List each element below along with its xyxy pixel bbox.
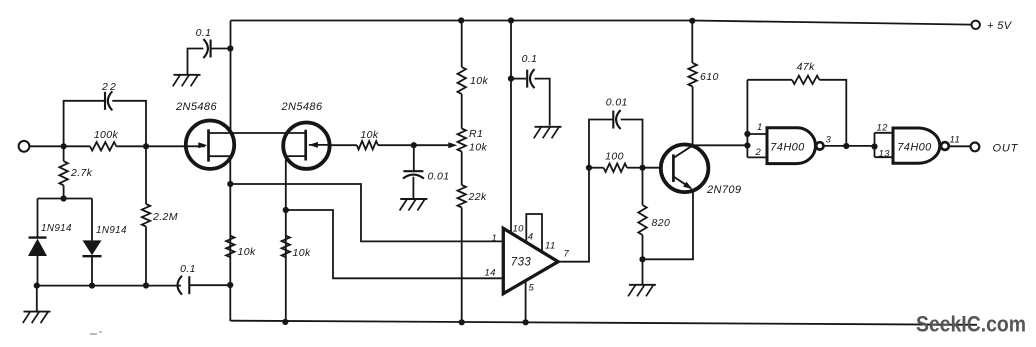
wire 10k to R1 pot: [461, 94, 463, 129]
wire R1 chain top: [461, 21, 463, 68]
wire 2.7k top: [63, 146, 65, 161]
wire 610 to collector: [692, 87, 694, 146]
svg-text:10: 10: [513, 224, 525, 235]
wire pin4-pin11 strap: [526, 214, 542, 252]
wire gate1 out: [823, 145, 874, 147]
capacitor 0.1 mid: [522, 53, 538, 88]
resistor 22k: [458, 185, 487, 208]
wire 2.2M bottom: [145, 227, 147, 286]
wire 2.2M top: [145, 146, 147, 204]
wire emitter bus: [643, 189, 694, 259]
svg-text:2: 2: [755, 147, 762, 158]
svg-text:10k: 10k: [469, 142, 487, 154]
wire 22pF to gate node: [112, 101, 146, 147]
label pin 12: [877, 123, 889, 134]
label pin 11: [545, 241, 556, 252]
label pin 3: [826, 135, 832, 146]
wire 0.01 to ground: [412, 177, 414, 199]
node gate junction: [143, 143, 149, 149]
resistor 100k: [90, 129, 119, 151]
capacitor 0.01 gate: [403, 171, 450, 183]
wire 2.7k bottom: [63, 185, 65, 198]
node 22k rail junction: [459, 319, 465, 325]
wire Q2 node to pin14: [286, 210, 503, 278]
svg-text:14: 14: [485, 268, 496, 279]
wire base: [643, 167, 663, 169]
ground 0.1 mid: [534, 127, 562, 139]
wire pin10 vertical: [510, 21, 512, 234]
smudge: [90, 331, 102, 335]
wire to 0.1 mid: [511, 78, 526, 80]
resistor 10k Q2 source: [282, 236, 311, 259]
wire pin2 stub: [747, 156, 767, 158]
svg-text:733: 733: [511, 257, 532, 269]
svg-text:47k: 47k: [797, 61, 815, 73]
svg-text:11: 11: [545, 241, 556, 252]
node emitter junction: [639, 256, 645, 262]
svg-text:100: 100: [605, 151, 624, 163]
svg-text:13: 13: [879, 149, 891, 160]
wire bottom left bus: [37, 285, 181, 287]
potentiometer R1 10k: [458, 128, 488, 154]
node diode junction: [61, 195, 67, 201]
wire 733 output: [558, 120, 612, 262]
label pin 4: [528, 232, 534, 243]
wire 0.1 mid to ground: [535, 79, 550, 126]
node drain bypass junction: [227, 45, 233, 51]
svg-text:610: 610: [700, 71, 719, 83]
node 2.2M bottom junction: [143, 282, 149, 288]
node diode-ground junction: [34, 283, 40, 289]
node 0.01 junction: [411, 142, 417, 148]
resistor 100: [604, 151, 627, 172]
svg-text:3: 3: [826, 135, 832, 146]
node rail 10k junction: [458, 17, 464, 23]
svg-text:1: 1: [757, 122, 763, 133]
svg-text:10k: 10k: [360, 129, 378, 141]
node pin7 resistor tap: [586, 165, 592, 171]
svg-text:12: 12: [877, 123, 889, 134]
svg-text:0.01: 0.01: [606, 97, 628, 109]
wire Q1 node to pin1: [230, 184, 503, 241]
node base junction: [639, 165, 645, 171]
node gate2 input junction: [871, 143, 877, 149]
svg-text:10k: 10k: [470, 75, 488, 87]
label pin 5: [529, 283, 535, 294]
terminal input: [19, 141, 30, 152]
svg-text:2N5486: 2N5486: [175, 101, 217, 113]
svg-text:0.01: 0.01: [428, 171, 450, 183]
svg-text:10k: 10k: [238, 246, 256, 258]
node feedback junction: [843, 143, 849, 149]
diode D2 1N914: [83, 199, 128, 286]
resistor 10k Q1 source: [226, 236, 256, 258]
wire Q1 source: [209, 156, 231, 321]
svg-text:100k: 100k: [94, 129, 119, 141]
nand gate U2b 74H00: [893, 128, 940, 163]
capacitor 22: [101, 81, 118, 110]
node rail pin10 junction: [508, 17, 514, 23]
nand gate U2a 74H00: [767, 128, 816, 164]
wire 0.01 to base node: [621, 120, 643, 168]
svg-text:74H00: 74H00: [897, 142, 932, 154]
ground emitter: [628, 259, 656, 296]
wire R1 to 22k: [461, 152, 463, 186]
wire gate Q1: [146, 145, 205, 147]
wire pin12 stub: [875, 132, 894, 134]
wire input to 100k: [64, 145, 90, 147]
resistor 2.7k: [59, 161, 92, 185]
label pin 10: [513, 224, 525, 235]
node Q2 source junction: [283, 207, 289, 213]
wire 610 top: [691, 21, 693, 64]
svg-text:5: 5: [529, 283, 535, 294]
svg-text:22: 22: [101, 81, 118, 93]
capacitor 0.01 speedup: [606, 97, 628, 130]
ground input: [23, 286, 51, 324]
resistor 47k: [792, 61, 819, 84]
node input junction: [61, 143, 67, 149]
wire 10k to R1: [378, 144, 450, 146]
wire drain supply vertical: [230, 21, 232, 134]
node D2 bottom junction: [89, 283, 95, 289]
wire input: [29, 145, 63, 147]
ground top-left: [173, 75, 201, 87]
node Q1 source junction: [227, 181, 233, 187]
node 0.1 bypass junction: [508, 76, 514, 82]
svg-text:OUT: OUT: [993, 143, 1019, 155]
wire +5V top rail: [231, 21, 972, 25]
node Q2 10k bottom rail junction: [282, 319, 288, 325]
wire Q2 source: [286, 156, 306, 322]
bubble gate2 output: [941, 142, 949, 150]
wire 47k feedback: [747, 80, 846, 146]
svg-text:1N914: 1N914: [41, 223, 72, 234]
svg-text:R1: R1: [469, 128, 483, 140]
svg-text:SeekIC.com: SeekIC.com: [916, 312, 1026, 337]
wire out: [949, 145, 971, 147]
wire pin5 to rail: [525, 281, 527, 323]
ground 0.01: [400, 199, 428, 211]
op-amp U1 733: [503, 228, 558, 293]
svg-text:2.7k: 2.7k: [70, 167, 93, 179]
transistor Q1 2N5486: [175, 101, 234, 169]
label pin 1 gate1: [757, 122, 763, 133]
watermark: [916, 312, 1026, 337]
svg-text:2N709: 2N709: [706, 184, 741, 196]
label pin 11 gate2: [950, 135, 961, 146]
wire collector to gate1: [693, 144, 748, 146]
label pin 7: [564, 249, 570, 260]
node bottom cap junction: [227, 282, 233, 288]
label pin 14: [485, 268, 496, 279]
label pin 1: [492, 233, 498, 244]
wire 22k to rail: [461, 208, 463, 323]
wire pin13 stub: [875, 156, 894, 158]
svg-text:2.2M: 2.2M: [152, 211, 178, 223]
svg-text:22k: 22k: [468, 191, 487, 203]
wire ground bottom rail: [231, 321, 978, 325]
node gate1 pin1 junction: [744, 131, 750, 137]
resistor 2.2M: [142, 204, 178, 227]
wire 820 top: [642, 168, 644, 205]
wire 0.01 stem: [413, 145, 415, 170]
label OUT: [993, 143, 1019, 155]
node rail 610 junction: [689, 18, 695, 24]
svg-text:1N914: 1N914: [96, 225, 127, 236]
node pin5 rail junction: [523, 319, 529, 325]
wire diode top bus: [38, 198, 93, 200]
wire 22pF branch up: [64, 101, 104, 147]
svg-text:0.1: 0.1: [196, 27, 212, 39]
svg-text:+ 5V: + 5V: [987, 20, 1013, 32]
wire cap 0.1 to ground: [188, 49, 204, 75]
terminal OUT: [971, 143, 980, 152]
terminal +5V: [972, 21, 980, 29]
svg-text:1: 1: [492, 233, 498, 244]
wire cap to rail corner: [189, 284, 230, 286]
resistor 10k gate: [357, 129, 379, 149]
wire 820 bottom: [642, 235, 644, 259]
wire cap 0.1 to drain line: [211, 48, 231, 50]
svg-text:820: 820: [652, 217, 671, 229]
transistor Q3 2N709: [661, 145, 742, 197]
label +5V: [987, 20, 1013, 32]
capacitor 0.1 bottom: [178, 263, 196, 295]
svg-text:2N5486: 2N5486: [281, 101, 323, 113]
svg-text:7: 7: [564, 249, 570, 260]
wiper arrow R1: [448, 142, 457, 148]
label pin 2 gate1: [755, 147, 762, 158]
label 0.1 top: [196, 27, 212, 39]
svg-text:74H00: 74H00: [770, 142, 805, 154]
wire 100 right: [627, 167, 643, 169]
wire Q2 gate: [329, 144, 356, 146]
label pin 13: [879, 149, 891, 160]
diode D1 1N914: [28, 199, 72, 286]
svg-text:4: 4: [528, 232, 534, 243]
wire drain bus: [209, 132, 306, 134]
svg-text:10k: 10k: [293, 247, 311, 259]
bubble gate1 output: [816, 142, 823, 149]
resistor 820: [638, 205, 670, 235]
svg-text:0.1: 0.1: [180, 263, 196, 275]
resistor 610: [688, 63, 718, 87]
wire gate2 input leg: [874, 133, 876, 157]
transistor Q2 2N5486: [281, 101, 330, 169]
svg-text:11: 11: [950, 135, 961, 146]
capacitor 0.1 top: [203, 39, 210, 58]
wire 47k left leg: [746, 80, 748, 158]
node gate1 input junction: [744, 142, 750, 148]
svg-text:0.1: 0.1: [522, 53, 538, 65]
wire 100 left: [589, 167, 604, 169]
wire pin1 stub: [747, 133, 767, 135]
resistor 10k top chain: [458, 67, 489, 94]
wire 100k to gate node: [116, 145, 146, 147]
